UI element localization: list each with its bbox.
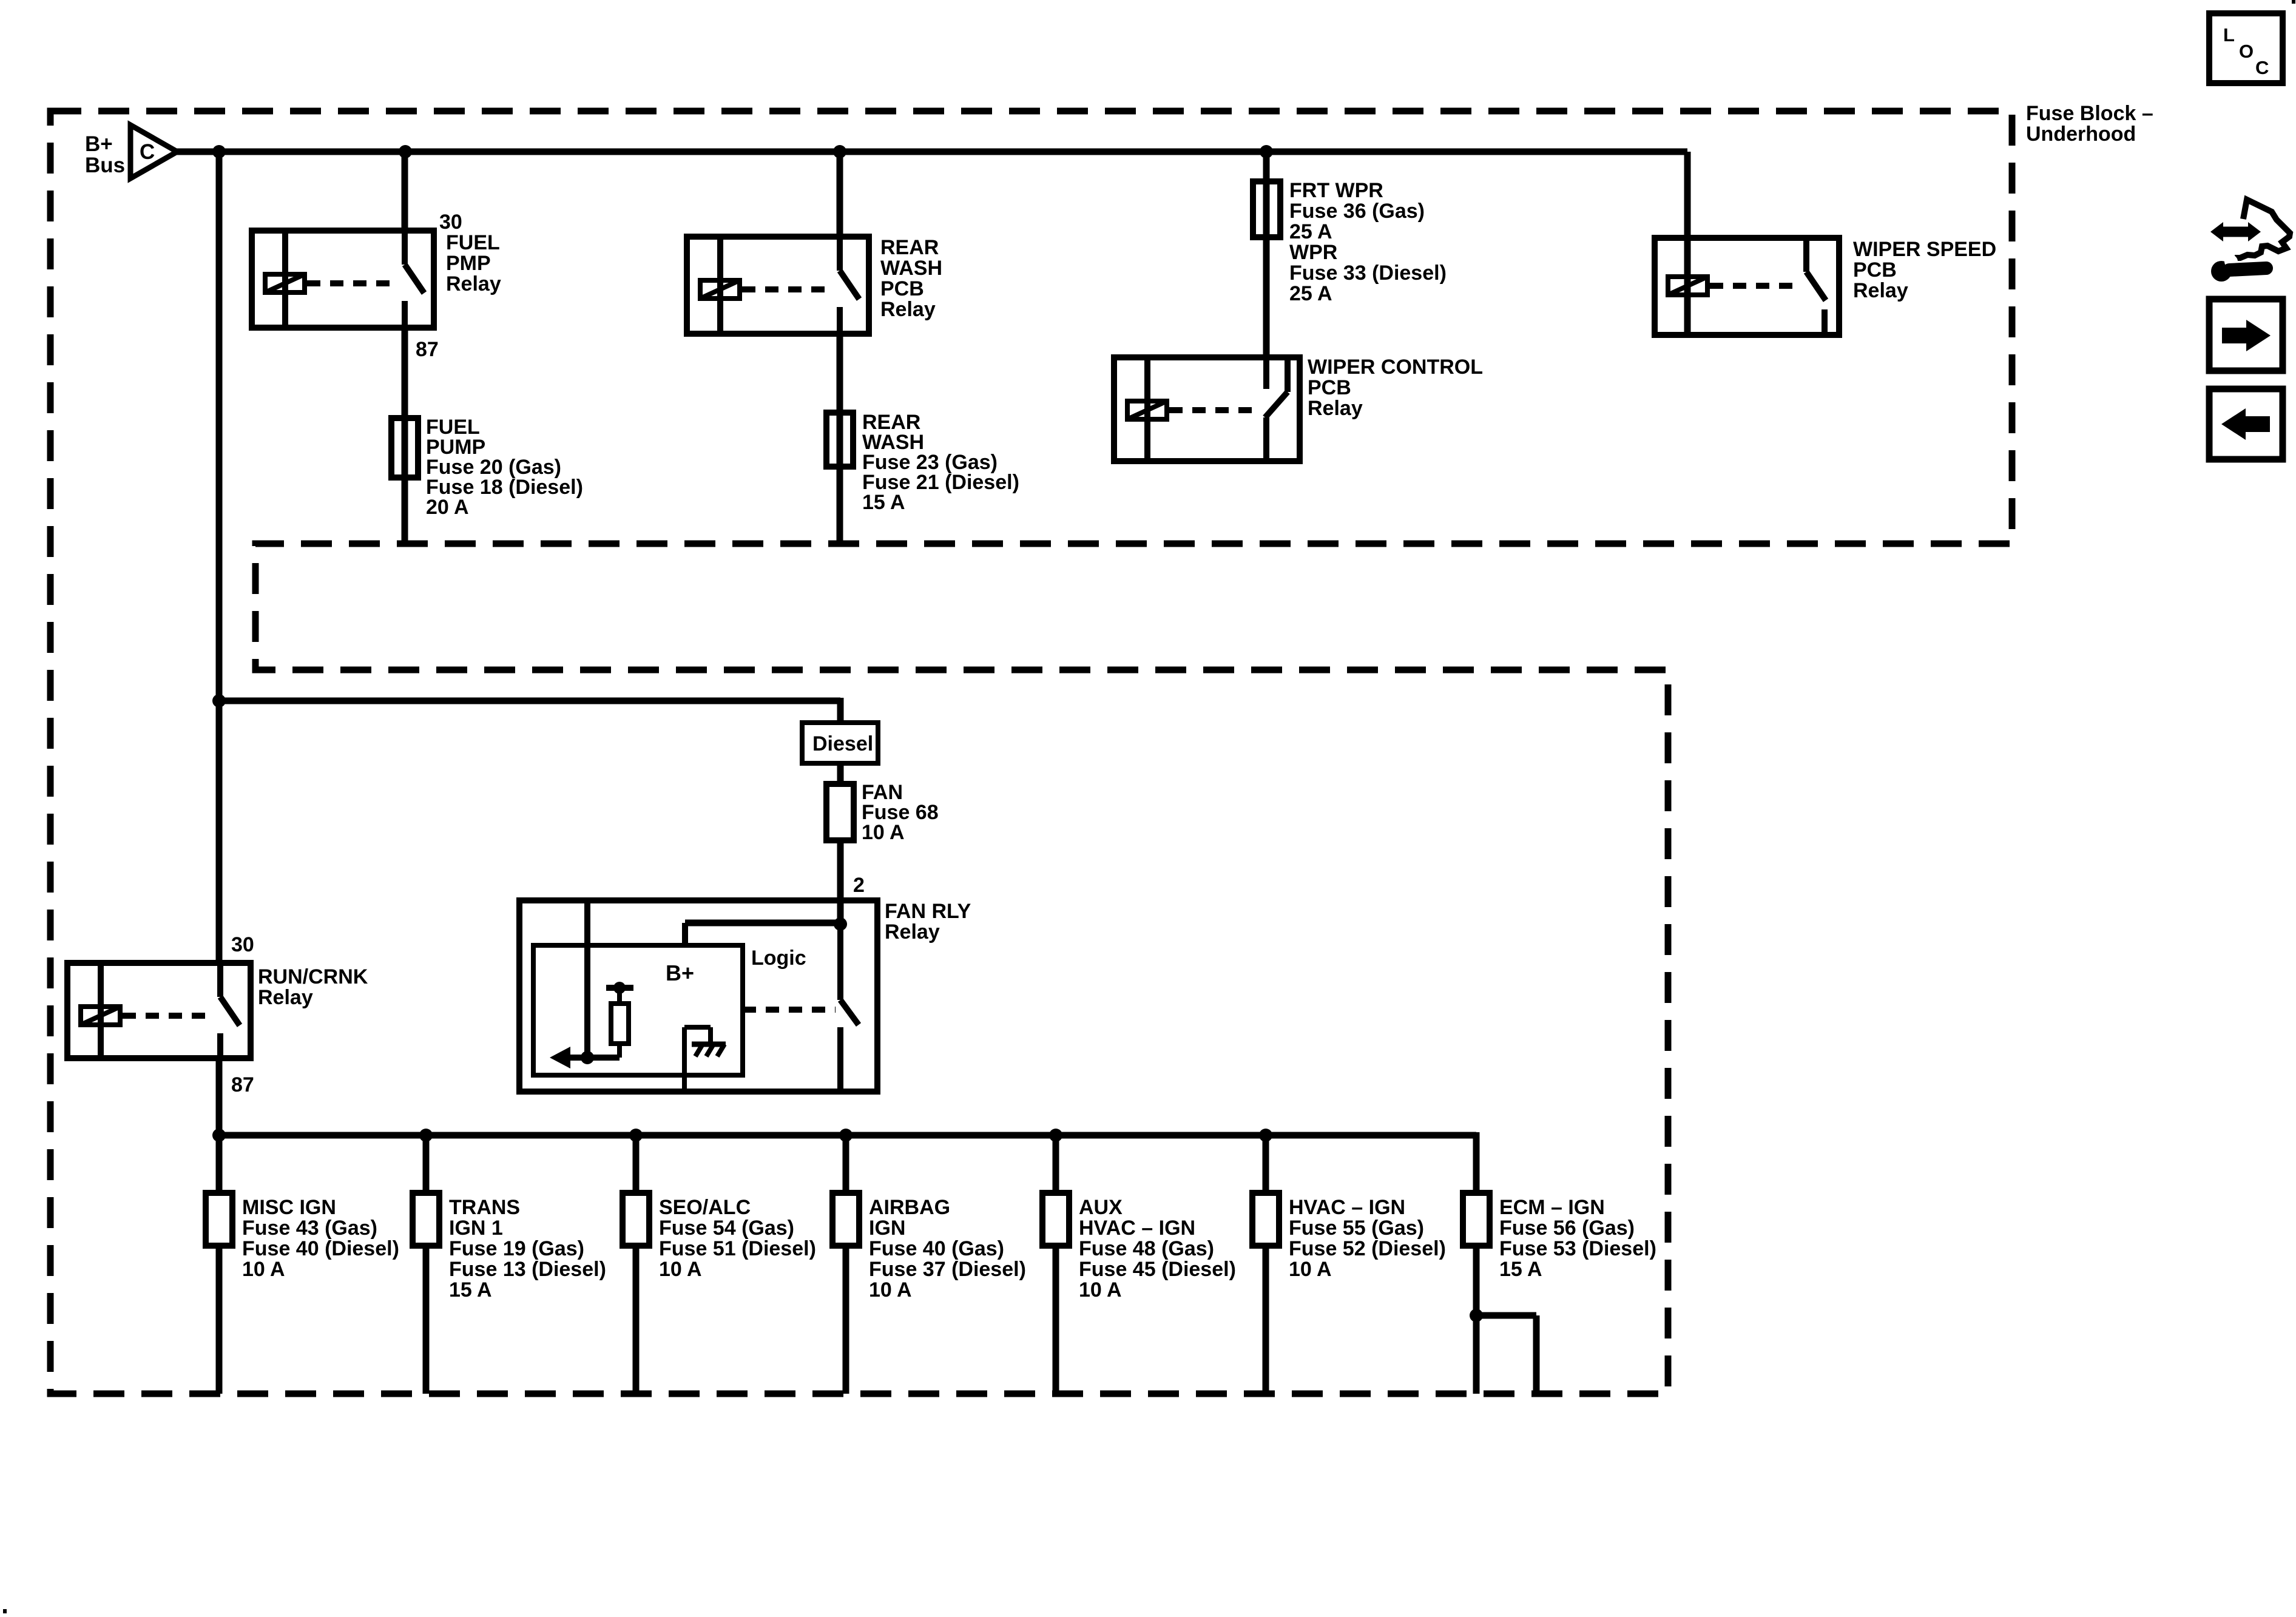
- svg-text:B+: B+: [85, 132, 113, 156]
- wire bus to FRT WPR fuse and WIPER CONTROL relay: [1263, 152, 1270, 357]
- wire drop to HVAC-IGN fuse: [1263, 1135, 1269, 1193]
- svg-text:IGN 1: IGN 1: [449, 1217, 503, 1240]
- svg-text:Fuse 56 (Gas): Fuse 56 (Gas): [1499, 1217, 1635, 1240]
- wire FAN RLY switch top: [837, 924, 843, 1000]
- fuse block outline (Fuse Block - Underhood, dashed): [50, 111, 2012, 1394]
- switch FAN RLY fixed contact: [837, 1027, 843, 1092]
- label FUEL PUMP fuse: [426, 416, 583, 519]
- label REAR WASH fuse: [862, 411, 1019, 514]
- svg-text:Fuse 40 (Diesel): Fuse 40 (Diesel): [242, 1237, 399, 1260]
- junction node AIRBAG IGN: [839, 1129, 853, 1142]
- wire pin 2 branch to logic: [685, 923, 840, 945]
- svg-text:Fuse 19 (Gas): Fuse 19 (Gas): [449, 1237, 584, 1260]
- wire FAN feed down to Diesel box: [837, 698, 844, 723]
- svg-text:WPR: WPR: [1289, 241, 1337, 264]
- relay WIPER SPEED PCB: [1655, 238, 1839, 335]
- svg-text:10 A: 10 A: [1289, 1258, 1332, 1281]
- icon forward arrow box: [2209, 299, 2283, 371]
- label HVAC-IGN fuse: [1289, 1196, 1446, 1281]
- svg-text:HVAC – IGN: HVAC – IGN: [1289, 1196, 1405, 1219]
- wire ignition bus: [219, 1132, 1476, 1139]
- wire bus to FUEL PMP pin 30: [402, 152, 408, 231]
- fuse MISC IGN: [206, 1193, 232, 1246]
- label FRT WPR fuse: [1289, 179, 1447, 305]
- svg-text:10 A: 10 A: [659, 1258, 702, 1281]
- B+ Bus source triangle C: [130, 125, 177, 178]
- wire below AIRBAG IGN fuse to fuse block edge: [843, 1246, 849, 1394]
- svg-text:Fuse 36 (Gas): Fuse 36 (Gas): [1289, 200, 1425, 223]
- svg-text:Bus: Bus: [85, 154, 125, 177]
- wire B+ drop to RUN/CRNK: [216, 152, 223, 963]
- wire Diesel box to FAN fuse: [837, 763, 844, 784]
- label WIPER SPEED PCB Relay: [1853, 238, 1996, 302]
- svg-text:O: O: [2239, 41, 2254, 62]
- svg-text:10 A: 10 A: [862, 821, 905, 844]
- svg-text:AUX: AUX: [1079, 1196, 1123, 1219]
- svg-text:Diesel: Diesel: [812, 732, 873, 755]
- label B+ (internal): [666, 960, 694, 985]
- svg-text:HVAC – IGN: HVAC – IGN: [1079, 1217, 1195, 1240]
- junction node pin 2 inside FAN RLY: [834, 917, 847, 931]
- junction node internal: [581, 1051, 594, 1064]
- wire FUEL PMP pin 87 to FUEL PUMP fuse: [402, 328, 408, 544]
- svg-text:TRANS: TRANS: [449, 1196, 520, 1219]
- svg-text:Fuse 37 (Diesel): Fuse 37 (Diesel): [869, 1258, 1026, 1281]
- label FAN fuse: [862, 781, 939, 844]
- svg-text:10 A: 10 A: [1079, 1278, 1122, 1301]
- svg-text:87: 87: [416, 338, 439, 361]
- junction node SEO/ALC: [629, 1129, 643, 1142]
- wire drop to MISC IGN fuse: [216, 1135, 223, 1193]
- svg-text:15 A: 15 A: [1499, 1258, 1542, 1281]
- svg-text:REAR: REAR: [880, 236, 939, 259]
- svg-text:Logic: Logic: [751, 947, 806, 970]
- node Diesel (diesel-only branch): [802, 723, 878, 763]
- svg-text:Fuse 51 (Diesel): Fuse 51 (Diesel): [659, 1237, 816, 1260]
- junction node at FRT WPR drop: [1260, 145, 1273, 158]
- junction node TRANS IGN 1: [419, 1129, 433, 1142]
- junction node AUX HVAC-IGN: [1049, 1129, 1062, 1142]
- label AUX HVAC-IGN fuse: [1079, 1196, 1236, 1301]
- label TRANS IGN 1 fuse: [449, 1196, 606, 1301]
- svg-text:ECM – IGN: ECM – IGN: [1499, 1196, 1605, 1219]
- logic block box: [533, 945, 743, 1075]
- svg-text:25 A: 25 A: [1289, 220, 1332, 243]
- svg-text:Fuse 43 (Gas): Fuse 43 (Gas): [242, 1217, 377, 1240]
- label ECM-IGN fuse: [1499, 1196, 1656, 1281]
- junction node ECM branch: [1470, 1309, 1483, 1322]
- svg-text:10 A: 10 A: [869, 1278, 912, 1301]
- label SEO/ALC fuse: [659, 1196, 816, 1281]
- wire below AUX HVAC-IGN fuse to fuse block edge: [1053, 1246, 1059, 1394]
- label AIRBAG IGN fuse: [869, 1196, 1026, 1301]
- svg-text:30: 30: [231, 933, 254, 956]
- svg-text:IGN: IGN: [869, 1217, 905, 1240]
- wire ground hook: [684, 1027, 711, 1092]
- label FAN RLY Relay: [885, 900, 971, 944]
- svg-text:RUN/CRNK: RUN/CRNK: [258, 965, 368, 988]
- svg-text:Relay: Relay: [880, 298, 936, 321]
- fuse REAR WASH (Fuse 23/21): [826, 413, 853, 467]
- svg-text:B+: B+: [666, 960, 694, 985]
- junction node at RUN/CRNK drop: [212, 145, 226, 158]
- svg-text:SEO/ALC: SEO/ALC: [659, 1196, 751, 1219]
- fuse ECM-IGN: [1463, 1193, 1490, 1246]
- wire B+ bus horizontal: [175, 149, 1687, 155]
- svg-text:15 A: 15 A: [862, 491, 905, 514]
- junction node RUN-CRNK to bus: [212, 1129, 226, 1142]
- resistor (coil driver): [611, 988, 629, 1058]
- wire bus to REAR WASH relay: [837, 152, 843, 237]
- label WIPER CONTROL PCB Relay: [1308, 356, 1483, 420]
- fuse TRANS IGN 1: [413, 1193, 439, 1246]
- fuse HVAC-IGN: [1252, 1193, 1279, 1246]
- svg-text:C: C: [140, 140, 155, 164]
- pin label 30 (FUEL PMP): [439, 211, 462, 234]
- svg-text:AIRBAG: AIRBAG: [869, 1196, 950, 1219]
- svg-text:PCB: PCB: [1853, 258, 1897, 282]
- label REAR WASH PCB Relay: [880, 236, 942, 321]
- resistor (coil driver) tap bar: [606, 982, 633, 994]
- label MISC IGN fuse: [242, 1196, 399, 1281]
- wire drop to ECM-IGN fuse: [1473, 1132, 1480, 1193]
- fuse SEO/ALC: [623, 1193, 649, 1246]
- wire below SEO/ALC fuse to fuse block edge: [633, 1246, 640, 1394]
- svg-text:WIPER SPEED: WIPER SPEED: [1853, 238, 1996, 261]
- svg-text:Fuse 33 (Diesel): Fuse 33 (Diesel): [1289, 262, 1447, 285]
- wire drop to TRANS IGN 1 fuse: [423, 1135, 430, 1193]
- svg-text:Fuse 53 (Diesel): Fuse 53 (Diesel): [1499, 1237, 1656, 1260]
- wire drop to AUX HVAC-IGN fuse: [1053, 1135, 1059, 1193]
- icon LOC reference box: [2209, 13, 2283, 83]
- wire ECM branch jog: [1476, 1315, 1536, 1394]
- pin label 87 (RUN/CRNK): [231, 1073, 254, 1096]
- ground (chassis): [692, 1044, 726, 1056]
- relay WIPER CONTROL PCB: [1114, 357, 1300, 461]
- pin label 30 (RUN/CRNK): [231, 933, 254, 956]
- junction node FAN feed: [212, 694, 226, 707]
- label FUEL PMP Relay: [446, 231, 501, 295]
- svg-text:15 A: 15 A: [449, 1278, 492, 1301]
- svg-text:30: 30: [439, 211, 462, 234]
- label RUN/CRNK Relay: [258, 965, 368, 1009]
- svg-text:2: 2: [853, 874, 865, 897]
- scan artifact dot bottom left: [3, 1609, 7, 1613]
- pin label 87 (FUEL PMP): [416, 338, 439, 361]
- scan artifact dot top right: [2292, 0, 2295, 4]
- svg-text:Underhood: Underhood: [2026, 123, 2136, 146]
- wire drop to AIRBAG IGN fuse: [843, 1135, 849, 1193]
- svg-text:PCB: PCB: [1308, 376, 1351, 399]
- svg-text:Fuse Block –: Fuse Block –: [2026, 102, 2153, 125]
- label B+ Bus: [85, 132, 125, 177]
- svg-text:Fuse 54 (Gas): Fuse 54 (Gas): [659, 1217, 794, 1240]
- svg-text:C: C: [2255, 57, 2269, 78]
- wire RUN/CRNK pin 87 to ignition bus: [216, 1058, 223, 1135]
- svg-text:Relay: Relay: [446, 272, 501, 295]
- wire drop to SEO/ALC fuse: [633, 1135, 640, 1193]
- label Logic: [751, 947, 806, 970]
- wire FAN feed horizontal: [219, 698, 840, 704]
- svg-text:PMP: PMP: [446, 252, 491, 275]
- svg-text:Fuse 45 (Diesel): Fuse 45 (Diesel): [1079, 1258, 1236, 1281]
- svg-text:Fuse 13 (Diesel): Fuse 13 (Diesel): [449, 1258, 606, 1281]
- dashed actuate link FAN RLY: [743, 1007, 836, 1013]
- wire FAN fuse to FAN RLY pin 2: [837, 840, 844, 924]
- fuse FRT WPR (Fuse 36/33): [1253, 181, 1280, 237]
- fuse AIRBAG IGN: [832, 1193, 859, 1246]
- wire below TRANS IGN 1 fuse to fuse block edge: [423, 1246, 430, 1394]
- icon body repair (arrow, panel, wrench): [2210, 200, 2290, 282]
- fuse AUX HVAC-IGN: [1042, 1193, 1069, 1246]
- svg-text:Fuse 52 (Diesel): Fuse 52 (Diesel): [1289, 1237, 1446, 1260]
- svg-text:25 A: 25 A: [1289, 282, 1332, 305]
- relay FAN RLY box: [519, 900, 877, 1092]
- svg-text:Fuse 40 (Gas): Fuse 40 (Gas): [869, 1237, 1004, 1260]
- svg-text:Fuse 55 (Gas): Fuse 55 (Gas): [1289, 1217, 1424, 1240]
- arrow internal output (left): [550, 1047, 620, 1068]
- junction node at REAR WASH drop: [833, 145, 846, 158]
- wire below HVAC-IGN fuse to fuse block edge: [1263, 1246, 1269, 1394]
- svg-text:Relay: Relay: [885, 920, 940, 944]
- wire below ECM-IGN fuse: [1473, 1246, 1480, 1394]
- svg-text:20 A: 20 A: [426, 496, 469, 519]
- svg-text:MISC IGN: MISC IGN: [242, 1196, 336, 1219]
- junction node HVAC-IGN: [1259, 1129, 1272, 1142]
- fuse FUEL PUMP (Fuse 20/18): [391, 418, 418, 478]
- fuse FAN (Fuse 68): [826, 784, 854, 840]
- svg-text:WIPER CONTROL: WIPER CONTROL: [1308, 356, 1483, 379]
- wire REAR WASH relay to fuse: [837, 334, 843, 544]
- svg-text:FUEL: FUEL: [446, 231, 500, 254]
- label Fuse Block - Underhood: [2026, 102, 2153, 146]
- wire below MISC IGN fuse to fuse block edge: [216, 1246, 223, 1394]
- svg-text:FRT WPR: FRT WPR: [1289, 179, 1383, 202]
- svg-text:PCB: PCB: [880, 277, 924, 300]
- wire internal B+ supply: [584, 900, 590, 1058]
- svg-text:87: 87: [231, 1073, 254, 1096]
- svg-text:FAN RLY: FAN RLY: [885, 900, 971, 923]
- svg-text:Relay: Relay: [258, 986, 313, 1009]
- relay REAR WASH PCB: [687, 237, 869, 334]
- relay FUEL PMP: [252, 231, 434, 328]
- svg-text:L: L: [2223, 24, 2235, 46]
- svg-text:Relay: Relay: [1853, 279, 1908, 302]
- svg-text:Relay: Relay: [1308, 397, 1363, 420]
- pin label 2 (FAN RLY): [853, 874, 865, 897]
- relay RUN/CRNK: [67, 963, 251, 1058]
- junction node at FUEL PMP drop: [399, 145, 412, 158]
- svg-text:WASH: WASH: [880, 257, 942, 280]
- icon back arrow box: [2209, 389, 2283, 459]
- svg-text:Fuse 48 (Gas): Fuse 48 (Gas): [1079, 1237, 1214, 1260]
- switch FAN RLY moving contact: [840, 1000, 859, 1025]
- svg-text:10 A: 10 A: [242, 1258, 285, 1281]
- wire bus corner down to WIPER SPEED coil: [1684, 152, 1691, 335]
